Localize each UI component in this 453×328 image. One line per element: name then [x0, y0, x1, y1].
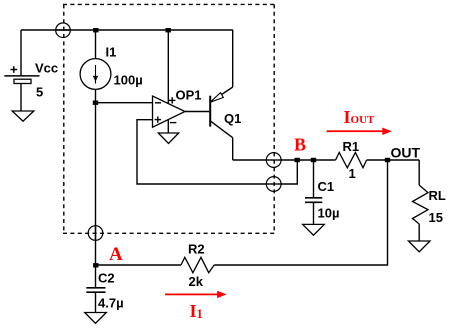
wire: op-amp power down to ground	[167, 119, 169, 133]
svg-text:1: 1	[349, 166, 356, 181]
ground (RL)	[408, 241, 430, 252]
wire: C2 top	[95, 265, 97, 288]
svg-text:100µ: 100µ	[114, 73, 143, 88]
wire: I1 bottom down through port to node A	[95, 90, 97, 266]
capacitor C1	[305, 198, 322, 203]
wire: op-amp plus input loop	[137, 120, 266, 184]
svg-text:10µ: 10µ	[318, 206, 340, 221]
svg-text:Vcc: Vcc	[35, 61, 58, 76]
junction dot (B riser)	[295, 158, 300, 162]
svg-text:Q1: Q1	[224, 111, 241, 126]
resistor RL	[413, 185, 429, 224]
Q1 base wire	[185, 111, 209, 113]
ground (C2)	[85, 313, 107, 324]
op-amp minus power sign	[170, 122, 176, 124]
wire: node A to R2	[96, 264, 182, 266]
svg-text:C1: C1	[318, 179, 335, 194]
port1 (B upper)	[266, 153, 281, 168]
svg-text:B: B	[294, 135, 306, 155]
svg-text:C2: C2	[98, 270, 115, 285]
svg-text:A: A	[109, 244, 123, 265]
I1 arrow	[94, 65, 98, 84]
svg-text:5: 5	[36, 85, 43, 100]
capacitor C2	[86, 288, 105, 292]
port2 (B lower)	[266, 177, 281, 192]
svg-text:2k: 2k	[189, 274, 204, 289]
ground (C1)	[303, 224, 325, 235]
junction dot (C1 top)	[311, 158, 316, 162]
junction dot (rail/op-amp power)	[166, 28, 171, 32]
wire: port2 to B riser	[281, 160, 297, 184]
svg-text:RL: RL	[429, 188, 446, 203]
wire: op-amp minus input from I1	[96, 102, 153, 104]
current arrow I1	[165, 291, 227, 298]
wire: R1 to OUT	[367, 159, 420, 161]
port (bottom, node A riser)	[88, 226, 103, 241]
wire: battery to ground	[20, 84, 22, 112]
svg-text:I1: I1	[106, 45, 117, 60]
wire: Vcc vertical to battery	[20, 30, 22, 76]
svg-text:4.7µ: 4.7µ	[98, 295, 124, 310]
transistor Q1 (PNP)	[185, 87, 233, 138]
port (top-left)	[56, 23, 71, 38]
wire: Q1 emitter vertical from rail	[232, 30, 234, 87]
Q1 emitter arrow	[210, 93, 223, 103]
svg-text:R2: R2	[188, 241, 205, 256]
op-amp plus power sign	[169, 97, 175, 103]
dashed subcircuit box	[63, 4, 275, 233]
battery plus sign	[11, 66, 18, 73]
wire: C1 bottom to ground	[313, 202, 315, 224]
Q1 collector diagonal	[211, 121, 233, 137]
Q1 emitter diagonal	[210, 87, 233, 102]
battery V1 (Vcc)	[4, 76, 39, 84]
wire: I1 top	[95, 30, 97, 58]
ground (op-amp)	[158, 133, 178, 143]
junction dot (OUT)	[385, 158, 390, 162]
wire: Q1 collector to port1	[233, 159, 267, 161]
svg-text:15: 15	[429, 210, 443, 225]
junction dot (rail/I1)	[93, 28, 98, 32]
resistor R2	[181, 257, 214, 272]
current source I1	[80, 59, 111, 90]
resistor R1	[336, 152, 367, 167]
junction dot (I1 bottom / op-amp input)	[93, 101, 98, 105]
wire: feedback OUT down	[214, 160, 387, 265]
Q1 base bar	[209, 96, 211, 127]
wire: OUT down to RL zigzag	[418, 160, 420, 185]
wire: op-amp power up	[167, 30, 169, 103]
current arrow IOUT	[327, 128, 392, 135]
svg-text:R1: R1	[343, 139, 360, 154]
wire: port1 to R1	[281, 159, 336, 161]
wire: RL to ground	[418, 224, 420, 241]
op-amp plus input sign	[155, 116, 161, 122]
svg-text:OUT: OUT	[391, 145, 421, 161]
wire: C2 bottom to ground	[95, 292, 97, 313]
wire: Vcc top rail	[21, 29, 233, 31]
op-amp minus input sign	[155, 102, 161, 104]
junction dot (node A)	[93, 263, 98, 267]
ground (Vcc)	[12, 111, 34, 121]
op-amp OP1	[153, 96, 186, 127]
wire: C1 top	[313, 160, 315, 198]
port wires through circles	[56, 30, 281, 240]
wire: Q1 collector down	[232, 138, 234, 160]
svg-text:OP1: OP1	[176, 88, 202, 103]
